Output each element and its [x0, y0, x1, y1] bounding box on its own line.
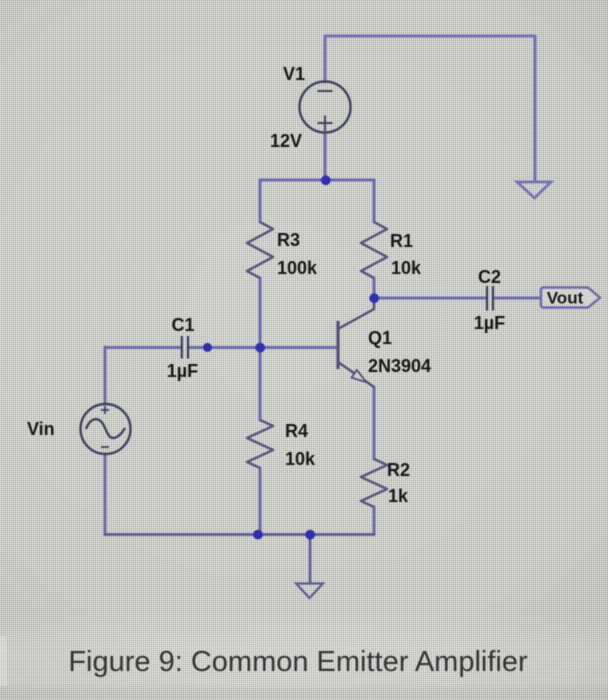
- svg-text:10k: 10k: [391, 258, 422, 278]
- svg-text:C2: C2: [478, 267, 501, 287]
- svg-text:C1: C1: [171, 315, 194, 335]
- svg-text:R3: R3: [277, 230, 300, 250]
- svg-text:10k: 10k: [285, 449, 316, 469]
- svg-text:R4: R4: [285, 421, 308, 441]
- svg-text:1µF: 1µF: [474, 313, 505, 333]
- svg-text:Q1: Q1: [368, 328, 392, 348]
- svg-text:100k: 100k: [277, 258, 318, 278]
- svg-text:R2: R2: [387, 460, 410, 480]
- svg-text:1k: 1k: [388, 486, 409, 506]
- svg-text:12V: 12V: [270, 131, 302, 151]
- svg-text:Vout: Vout: [547, 289, 584, 308]
- svg-text:Vin: Vin: [27, 419, 55, 439]
- svg-text:V1: V1: [283, 64, 305, 84]
- svg-text:R1: R1: [390, 231, 413, 251]
- svg-text:1µF: 1µF: [167, 361, 198, 381]
- svg-text:2N3904: 2N3904: [368, 356, 431, 376]
